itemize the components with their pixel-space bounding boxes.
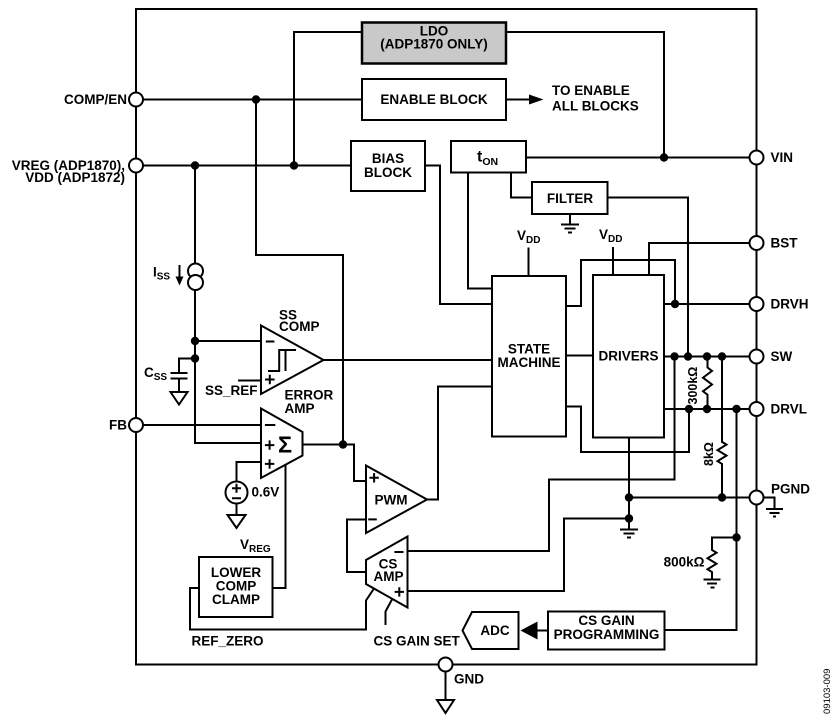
svg-text:ALL BLOCKS: ALL BLOCKS: [552, 99, 639, 114]
svg-text:CS GAIN SET: CS GAIN SET: [374, 634, 461, 649]
svg-text:FILTER: FILTER: [547, 191, 593, 206]
svg-text:DRVL: DRVL: [771, 402, 808, 417]
svg-text:DRVH: DRVH: [771, 297, 809, 312]
svg-text:VIN: VIN: [771, 150, 794, 165]
svg-text:CS GAIN: CS GAIN: [578, 613, 634, 628]
svg-text:800kΩ: 800kΩ: [664, 555, 705, 570]
svg-text:FB: FB: [109, 418, 127, 433]
svg-text:REF_ZERO: REF_ZERO: [192, 634, 264, 649]
svg-text:BLOCK: BLOCK: [364, 165, 412, 180]
svg-text:ADC: ADC: [480, 623, 509, 638]
svg-text:CLAMP: CLAMP: [212, 592, 260, 607]
svg-text:COMP/EN: COMP/EN: [64, 92, 127, 107]
svg-text:Σ: Σ: [278, 432, 292, 458]
svg-text:BIAS: BIAS: [372, 151, 404, 166]
svg-text:AMP: AMP: [374, 569, 404, 584]
svg-text:VDD (ADP1872): VDD (ADP1872): [25, 170, 125, 185]
svg-text:8kΩ: 8kΩ: [702, 442, 716, 466]
svg-text:SW: SW: [771, 349, 793, 364]
svg-text:PGND: PGND: [771, 482, 810, 497]
svg-text:0.6V: 0.6V: [252, 485, 280, 500]
svg-text:PROGRAMMING: PROGRAMMING: [554, 627, 660, 642]
svg-text:09103-009: 09103-009: [822, 669, 833, 714]
svg-text:ENABLE BLOCK: ENABLE BLOCK: [380, 92, 487, 107]
svg-text:DRIVERS: DRIVERS: [598, 349, 658, 364]
svg-text:MACHINE: MACHINE: [498, 355, 561, 370]
svg-text:SS_REF: SS_REF: [205, 383, 258, 398]
svg-text:TO ENABLE: TO ENABLE: [552, 83, 630, 98]
svg-text:PWM: PWM: [375, 493, 408, 508]
svg-text:COMP: COMP: [279, 319, 320, 334]
svg-text:GND: GND: [454, 672, 484, 687]
svg-text:AMP: AMP: [285, 401, 315, 416]
svg-text:(ADP1870 ONLY): (ADP1870 ONLY): [380, 37, 488, 52]
svg-text:300kΩ: 300kΩ: [686, 367, 700, 405]
svg-text:BST: BST: [771, 236, 799, 251]
